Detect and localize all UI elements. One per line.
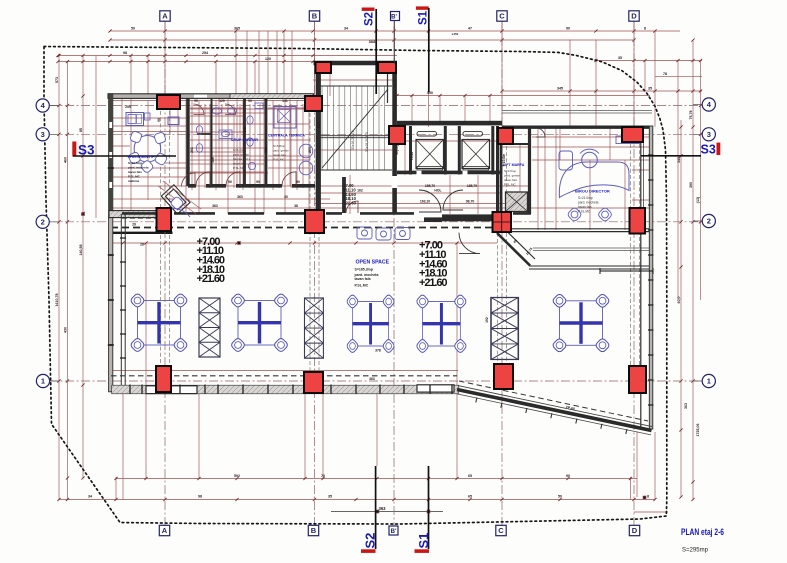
svg-text:98,70: 98,70 [466, 200, 475, 204]
svg-text:2: 2 [707, 217, 711, 226]
wire right dimension vertical x693 [692, 40, 694, 500]
svg-text:GRUP SANITAR: GRUP SANITAR [231, 138, 258, 142]
wall chevron diagonal 2 [504, 229, 535, 260]
door arc corridor right [443, 190, 463, 210]
svg-text:S=295mp: S=295mp [682, 547, 708, 554]
column A/1 [156, 366, 171, 392]
tower inner rail line [387, 74, 389, 103]
wall elevator shafts dividers [411, 126, 498, 214]
marker circle 1 left [36, 374, 49, 387]
wall thin pair y248 right [533, 248, 650, 251]
service shaft cross [506, 192, 528, 212]
wire left dimension vertical x67.5 [67, 62, 69, 500]
door arc chevron lobby [459, 233, 480, 254]
section S3 left line [73, 155, 176, 157]
door arc corridor left [419, 190, 441, 212]
svg-text:141: 141 [282, 99, 288, 103]
wire extension bottom x377 [376, 392, 378, 466]
svg-text:B: B [312, 12, 318, 21]
marker circle 2 left [36, 215, 49, 228]
svg-text:363: 363 [212, 204, 218, 208]
wire top dimension line 4 [58, 61, 313, 63]
svg-text:163,10: 163,10 [420, 200, 430, 204]
wall chevron diagonal 1 [497, 233, 530, 266]
grid line 2 horizontal [49, 221, 702, 223]
wall toilet partition x244.5 [243, 98, 246, 186]
svg-text:78: 78 [663, 72, 667, 76]
svg-text:460: 460 [64, 157, 68, 163]
marker circle 4 right [702, 98, 715, 111]
svg-text:B': B' [391, 14, 397, 20]
desk cluster 5 [552, 293, 611, 353]
column B/1 [304, 372, 323, 393]
svg-text:201: 201 [190, 147, 194, 153]
grid line B vertical [314, 21, 316, 526]
svg-text:50: 50 [131, 27, 135, 31]
column B/2 [305, 210, 324, 233]
wall balcony ledge right [417, 385, 454, 392]
svg-text:90: 90 [256, 180, 260, 184]
grid line C vertical [501, 21, 503, 526]
small level text corridor [343, 183, 357, 206]
section S3 left red bar [72, 142, 76, 157]
wire extension drop x376 [375, 31, 377, 62]
door arc office entry [536, 128, 545, 137]
svg-text:285: 285 [308, 147, 312, 153]
svg-text:90: 90 [566, 27, 570, 31]
column C/2 [493, 212, 512, 232]
svg-text:185,70: 185,70 [425, 184, 435, 188]
svg-text:29: 29 [132, 223, 136, 227]
svg-text:CENTRALA TERMICA: CENTRALA TERMICA [268, 134, 305, 138]
svg-text:S3: S3 [701, 143, 716, 157]
wire office interior dims [532, 128, 650, 230]
toilet fixtures group [196, 103, 263, 170]
svg-text:1725,06: 1725,06 [696, 424, 700, 437]
svg-text:188: 188 [264, 147, 268, 153]
svg-text:S1: S1 [418, 10, 430, 25]
column A/2 [157, 208, 172, 231]
wall core south segmented y213.4 [122, 212, 531, 215]
svg-text:D: D [632, 526, 638, 535]
wall toilet stall partition x191 low [197, 133, 212, 135]
svg-text:pard. gresie: pard. gresie [233, 153, 249, 157]
black dim bar right [600, 268, 653, 274]
wall diagonal railing ticks [476, 398, 627, 435]
svg-text:S=3.6mp: S=3.6mp [504, 169, 516, 173]
elevator 2 sill bottom [463, 167, 489, 171]
svg-text:90: 90 [566, 474, 570, 478]
wall terrace edge above office [502, 111, 652, 114]
svg-text:363: 363 [237, 195, 243, 199]
wall lower partition right y267 [529, 266, 650, 269]
svg-text:1: 1 [707, 377, 711, 386]
wall mullion ticks bottom glazing [130, 385, 452, 394]
svg-text:BIROU DIRECTOR: BIROU DIRECTOR [575, 189, 610, 194]
column tower top-left [316, 62, 332, 73]
elevator 1 door sill [417, 132, 437, 136]
svg-text:120: 120 [219, 99, 225, 103]
wall balcony ledge left [146, 386, 197, 394]
elevator 2 cross [462, 140, 490, 169]
wire core interior dim verticals [131, 66, 625, 230]
wardrobe top right [168, 117, 179, 125]
svg-text:390: 390 [689, 182, 693, 188]
svg-text:590: 590 [427, 91, 433, 95]
svg-text:90: 90 [194, 99, 198, 103]
door arc stall top 2 [225, 104, 236, 115]
svg-text:162: 162 [357, 189, 363, 193]
wall right band mullion ticks [648, 155, 654, 405]
svg-text:85: 85 [79, 128, 83, 132]
reception desk red diagonal dims [158, 181, 201, 214]
svg-text:(13): (13) [696, 196, 700, 203]
stairs top landing edge [318, 85, 392, 87]
wall office left [528, 127, 531, 214]
svg-text:140,58: 140,58 [79, 245, 83, 256]
svg-text:2: 2 [41, 218, 45, 227]
wire extension drop C top [501, 21, 503, 127]
dashed slab line above diagonal [459, 381, 648, 421]
marker square D top [629, 11, 639, 21]
grid line 3 horizontal [49, 133, 702, 135]
wall interior partition x188 [186, 98, 189, 186]
marker circle connector lines [49, 105, 702, 382]
wire extension bottom x116 [115, 477, 117, 500]
svg-text:C: C [499, 12, 505, 21]
wall right inner line x643.5 [643, 128, 645, 230]
svg-text:345: 345 [677, 157, 681, 163]
elevator 1 sill bottom [417, 167, 443, 171]
grid B' dark drop [394, 21, 396, 64]
wall bottom hatch overlay [112, 386, 459, 394]
elevator 2 door sill [463, 132, 483, 136]
svg-text:x450: x450 [452, 32, 459, 36]
kitchen sink [128, 115, 136, 124]
section S1 top line [428, 8, 430, 92]
wire small line y512 right [634, 511, 668, 513]
wall open space left glazing [121, 214, 125, 388]
svg-text:90: 90 [228, 180, 232, 184]
wall diagonal upper thin [458, 386, 652, 427]
service shaft hatched [506, 192, 528, 212]
wire extension bottom x123 [122, 394, 124, 500]
wire extension bottom x199 [198, 392, 200, 479]
svg-text:98: 98 [123, 51, 127, 55]
director chair [582, 152, 598, 168]
wire extension bottom x457 [456, 390, 458, 479]
marker square B' top [391, 12, 400, 21]
svg-text:430: 430 [64, 327, 68, 333]
svg-text:D: D [631, 12, 637, 21]
director desk [559, 162, 629, 198]
section S1 bottom red bar [415, 549, 430, 553]
column D/1 [629, 366, 646, 393]
svg-text:188: 188 [211, 157, 215, 163]
CT vessel 1 [299, 144, 313, 158]
svg-text:S=6.2mp: S=6.2mp [233, 148, 245, 152]
marker circle 2 right [702, 214, 715, 227]
svg-text:8: 8 [644, 27, 646, 31]
wire open space verticals [146, 243, 457, 385]
svg-text:30(16): 30(16) [395, 145, 399, 155]
svg-text:pard. mocheta: pard. mocheta [128, 166, 149, 170]
wall lift marfa left [500, 144, 503, 214]
wire heavy dashed slab line open space [111, 227, 497, 229]
marker square B bottom [308, 525, 318, 535]
kitchen small cab [145, 113, 151, 120]
svg-text:+21.60: +21.60 [343, 201, 357, 206]
wall top hatched segment [230, 94, 313, 99]
stairs bottom landing edge [318, 169, 392, 171]
door arc toilet 2 [226, 172, 240, 186]
door arc toilet 1 [196, 172, 210, 186]
wall stair landing vertical [342, 177, 346, 213]
wall left fin band [109, 94, 113, 392]
wire extension drop x284 [283, 31, 285, 96]
section S3 right red bar [717, 143, 721, 155]
svg-text:faianta h=2.1: faianta h=2.1 [233, 157, 251, 161]
svg-text:1610,78: 1610,78 [55, 294, 59, 307]
wire top dimension line 3 [58, 55, 397, 57]
wall dashed slab edge short left [122, 217, 156, 219]
grid line A vertical [164, 21, 166, 526]
wire core interior dim horizontals [110, 101, 650, 209]
svg-text:tavan fals: tavan fals [233, 162, 246, 166]
svg-text:378: 378 [375, 349, 381, 353]
wire left dimension vertical x83 [82, 56, 84, 479]
svg-text:98: 98 [198, 495, 202, 499]
column tower top-right [378, 62, 396, 73]
svg-text:5-10,0m: 5-10,0m [502, 154, 506, 167]
svg-text:A: A [162, 12, 168, 21]
svg-text:254: 254 [202, 51, 208, 55]
wire extension drop x428.5 [428, 31, 430, 127]
wall toilets bottom y185.8 [188, 184, 315, 188]
svg-text:65: 65 [468, 495, 472, 499]
elevator 2 cab [462, 140, 490, 169]
wire stall interior dims [190, 96, 310, 186]
wall stair tower left [316, 62, 321, 214]
wire extension bottom x637 [636, 432, 638, 497]
marker square B' bottom [389, 526, 398, 535]
section S2 bottom line [375, 466, 377, 549]
svg-text:+21.60: +21.60 [419, 277, 448, 289]
wire red line across elevators [395, 140, 505, 142]
svg-text:A: A [162, 526, 168, 535]
svg-text:363: 363 [379, 506, 387, 511]
svg-text:50: 50 [558, 495, 562, 499]
stairs treads [322, 86, 385, 170]
wire extension drop x236 [235, 31, 237, 96]
section S3 right line [641, 155, 701, 157]
CT boiler inner X [278, 110, 291, 123]
svg-text:38: 38 [294, 204, 298, 208]
svg-text:S2: S2 [364, 12, 376, 26]
svg-text:tavan fals: tavan fals [578, 205, 592, 209]
wall stub left of thick bar [424, 217, 442, 222]
svg-text:inaltime: inaltime [128, 179, 140, 183]
grid line D vertical [633, 21, 635, 526]
svg-text:90: 90 [157, 118, 161, 122]
wire right dimension line y91 [502, 90, 702, 92]
marker square D bottom [629, 525, 639, 535]
svg-text:363: 363 [369, 377, 375, 381]
door arc stair landing [346, 201, 358, 213]
marker circle 3 left [36, 128, 49, 141]
wire open space extension lines near columns [161, 111, 640, 372]
svg-text:tavan fals: tavan fals [355, 277, 371, 281]
wall stair tower top [314, 61, 398, 65]
stairs center rail [320, 136, 390, 138]
column D/3 [622, 127, 643, 142]
svg-text:35: 35 [618, 56, 622, 60]
svg-text:PLAN etaj 2-6: PLAN etaj 2-6 [681, 527, 724, 538]
door arc stall top 1 [194, 104, 205, 115]
guest chair 2 [597, 207, 613, 223]
level text block right [419, 240, 448, 289]
wall diagonal south-east [457, 390, 652, 431]
wire left dimension vertical x59 [58, 56, 60, 500]
svg-text:P.SL.MC: P.SL.MC [233, 166, 245, 170]
svg-text:P.SL.MC: P.SL.MC [273, 158, 285, 162]
svg-text:S=165.3mp: S=165.3mp [355, 268, 373, 272]
svg-text:47: 47 [468, 27, 472, 31]
marker circle 3 right [702, 128, 715, 141]
svg-text:35: 35 [648, 87, 652, 91]
svg-text:70: 70 [321, 474, 325, 478]
reception side arc [158, 208, 190, 217]
grid line B' vertical [393, 26, 395, 526]
kitchen sink inner [137, 115, 142, 124]
door arc CT room [282, 172, 296, 186]
column C/3 [498, 128, 513, 144]
column B'/3 [389, 126, 405, 144]
wire open space horizontal red line lower [110, 370, 458, 372]
wire extension bottom x146 [145, 392, 147, 479]
svg-text:90: 90 [248, 99, 252, 103]
svg-text:34: 34 [88, 495, 92, 499]
svg-text:368: 368 [369, 39, 376, 44]
dashed slab line above south wall [111, 375, 457, 377]
desk cluster 1 [130, 293, 189, 353]
desk cluster 2 [230, 293, 289, 353]
svg-text:65: 65 [468, 474, 472, 478]
svg-text:8: 8 [647, 495, 649, 499]
marker square C bottom [496, 525, 506, 535]
svg-text:tavan fals: tavan fals [504, 178, 517, 182]
svg-text:345: 345 [557, 87, 563, 91]
svg-text:OPEN SPACE: OPEN SPACE [356, 260, 390, 266]
wire top dimension line 1 [110, 30, 680, 32]
svg-text:28: 28 [140, 243, 144, 247]
wall elevator block bottom [397, 171, 502, 175]
dimension ticks [56, 29, 702, 501]
svg-text:70,20: 70,20 [410, 152, 414, 161]
wall right band [649, 126, 653, 429]
svg-text:365: 365 [234, 27, 240, 31]
door arc left room [182, 173, 196, 187]
wire top-right dimension line [596, 60, 702, 62]
CT boiler [274, 107, 296, 129]
svg-text:3: 3 [41, 130, 45, 139]
svg-text:S=16.6mp: S=16.6mp [128, 161, 142, 165]
svg-text:S2: S2 [363, 533, 378, 549]
tiny dimension numbers sides rotated [55, 77, 700, 437]
wire top dimension line 2 [110, 39, 634, 41]
wall thick bar left of C2 [442, 214, 493, 221]
svg-text:P.SL.MC: P.SL.MC [128, 175, 141, 179]
wire extension bottom x655 [654, 432, 656, 500]
svg-text:90: 90 [296, 180, 300, 184]
svg-text:tavan fals: tavan fals [128, 170, 142, 174]
wall office top [502, 125, 651, 128]
column C/2 cross [493, 212, 512, 232]
property boundary dotted line [44, 47, 667, 525]
grid line 4 horizontal [49, 105, 702, 107]
wire extension bottom x323 [322, 392, 324, 479]
wire extension drop D top [633, 21, 635, 127]
svg-text:30: 30 [284, 195, 288, 199]
svg-text:3: 3 [707, 130, 711, 139]
svg-text:+21.60: +21.60 [197, 273, 226, 285]
wire extension drop x596 [595, 40, 597, 128]
svg-text:30x16,2/26,3: 30x16,2/26,3 [365, 132, 369, 152]
svg-text:tavan fals: tavan fals [273, 153, 286, 157]
wire extension drop x394 [393, 21, 395, 126]
svg-text:LIFT MARFA: LIFT MARFA [503, 163, 525, 167]
wall office bottom [511, 229, 651, 232]
svg-text:B': B' [391, 529, 397, 535]
section S1 bottom line [428, 466, 430, 549]
column A/4 [157, 95, 180, 109]
svg-text:120: 120 [265, 57, 271, 61]
wire extension drop A top [164, 21, 166, 95]
svg-text:B: B [311, 526, 317, 535]
marker square A top [160, 11, 170, 21]
wire top-right dimension line 2 [655, 75, 702, 77]
wire extension drop B top [314, 21, 316, 96]
wall stair tower right [392, 62, 397, 214]
wire beam edge below column A/2 [109, 232, 173, 234]
stairs flight break diagonal [322, 89, 388, 168]
wall tower door gap [392, 176, 398, 188]
wire extension bottom x630.5 [630, 477, 632, 500]
wall mullion ticks left glazing [120, 238, 126, 358]
svg-text:1: 1 [41, 377, 45, 386]
svg-text:573: 573 [55, 77, 59, 83]
svg-text:C: C [498, 526, 504, 535]
wire left dimension vertical x96 [95, 56, 97, 219]
CT boiler inner [278, 110, 291, 123]
svg-text:S=21.0mp: S=21.0mp [578, 196, 593, 200]
wire left room interior dims [113, 96, 186, 210]
director return cabinet [559, 151, 573, 170]
desk cluster 4 [416, 294, 468, 354]
marker square C top [497, 11, 507, 21]
wire red line tower top [313, 79, 397, 81]
svg-text:P.SL.MC: P.SL.MC [355, 283, 369, 287]
svg-text:185,70: 185,70 [467, 184, 477, 188]
svg-text:363: 363 [684, 403, 688, 409]
wall diagonal railing offset [457, 394, 651, 435]
svg-text:pard. gresie: pard. gresie [504, 174, 520, 178]
svg-text:592: 592 [234, 474, 240, 478]
elevator 1 cab [416, 140, 444, 169]
wall left block bottom [109, 211, 158, 218]
column D/2 [630, 208, 646, 234]
desk cluster 3 [346, 294, 395, 354]
